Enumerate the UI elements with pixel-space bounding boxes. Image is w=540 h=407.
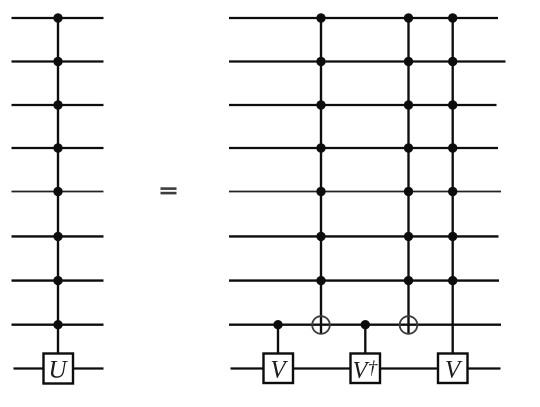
control dot CV1 q8 xyxy=(273,320,282,329)
control dot L q5 xyxy=(53,187,62,196)
wire R q9 segment 2 xyxy=(293,367,351,369)
control dot L q8 xyxy=(53,320,62,329)
wire R q6 xyxy=(229,235,499,237)
wire L q9 right segment xyxy=(73,367,104,369)
wire L q8 xyxy=(12,324,104,326)
wire R q1 xyxy=(229,17,498,19)
control dots CNOT2 q1-q7 xyxy=(404,13,413,285)
gate V1 box xyxy=(264,354,294,384)
wire L q9 left segment xyxy=(14,367,45,369)
control dot L q6 xyxy=(53,232,62,241)
control line L xyxy=(57,18,59,353)
wire R q3 xyxy=(229,104,497,106)
control dot CVdag q8 xyxy=(361,320,370,329)
svg-text:†: † xyxy=(368,358,378,379)
control line CV3 xyxy=(452,18,454,354)
wire L q2 xyxy=(12,60,104,62)
equals sign xyxy=(161,187,177,190)
wire R q5 xyxy=(229,191,501,193)
wire R q9 segment 4 xyxy=(468,367,501,369)
control dot L q4 xyxy=(53,143,62,152)
control dots CV3 q1-q7 xyxy=(448,13,457,285)
wire R q9 segment 3 xyxy=(380,367,439,369)
wire R q4 xyxy=(229,147,498,149)
wire L q7 xyxy=(12,279,104,281)
control line CV1 xyxy=(277,325,279,354)
control dot L q2 xyxy=(53,57,62,66)
gate U box xyxy=(44,354,74,384)
wire L q5 xyxy=(12,191,104,193)
wire R q2 xyxy=(229,60,506,62)
CNOT target 2 xyxy=(400,316,418,334)
svg-text:U: U xyxy=(48,357,68,384)
wire L q3 xyxy=(12,104,104,106)
control line CNOT1 xyxy=(320,18,322,334)
wire L q4 xyxy=(12,147,104,149)
wire R q7 xyxy=(229,279,499,281)
control line CVdag xyxy=(364,325,366,354)
control dot L q3 xyxy=(53,100,62,109)
gate Vdag box xyxy=(351,354,381,384)
wire L q6 xyxy=(12,235,104,237)
gate V3 box xyxy=(438,354,468,384)
control dot L q1 xyxy=(53,13,62,22)
control dots CNOT1 q1-q7 xyxy=(316,13,325,285)
wire R q8 xyxy=(229,324,501,326)
CNOT target 1 xyxy=(312,316,330,334)
control dot L q7 xyxy=(53,276,62,285)
wire L q1 xyxy=(12,17,104,19)
control line CNOT2 xyxy=(407,18,409,334)
wire R q9 segment 1 xyxy=(231,367,264,369)
